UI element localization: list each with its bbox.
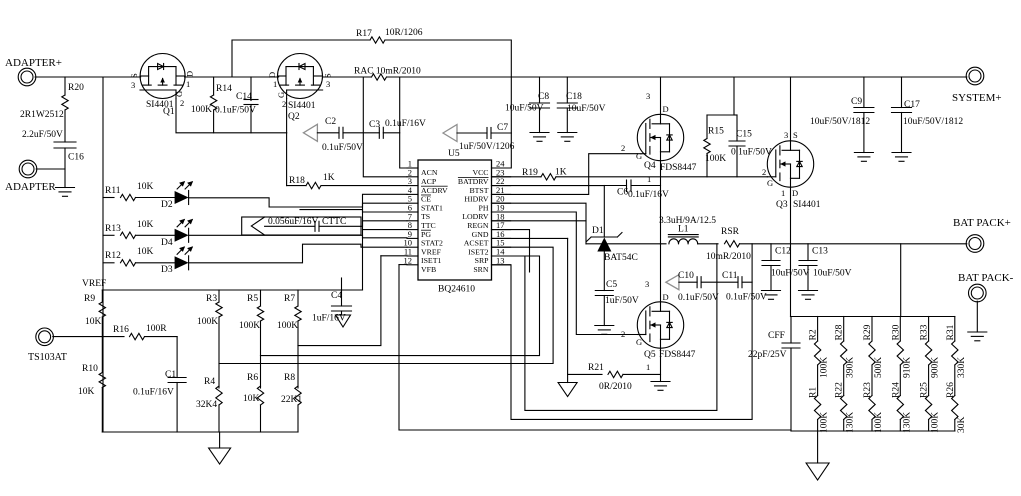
svg-text:R20: R20 xyxy=(68,83,84,93)
svg-text:S: S xyxy=(129,73,139,78)
svg-text:R22: R22 xyxy=(835,382,845,398)
wire R28 to R22 xyxy=(843,365,845,396)
wire ADAPTER- to C16 node xyxy=(36,168,65,170)
wire R8 top xyxy=(297,346,299,388)
diode D1 BAT54C xyxy=(597,238,611,252)
wire R25 bottom xyxy=(928,420,930,432)
wire C8 top xyxy=(539,77,541,103)
svg-text:R3: R3 xyxy=(206,294,217,304)
svg-text:32K4: 32K4 xyxy=(196,400,217,410)
wire pin13 SRN sense xyxy=(492,244,753,420)
wire R24 bottom xyxy=(899,420,901,432)
wire C8 bottom xyxy=(539,108,541,133)
resistor R26 xyxy=(952,396,958,420)
svg-text:ADAPTER-: ADAPTER- xyxy=(5,181,60,193)
resistor R17 xyxy=(370,37,385,43)
wire R6 top xyxy=(260,356,262,388)
pin 13 stub U5 xyxy=(492,264,511,266)
svg-text:1K: 1K xyxy=(555,168,567,178)
svg-text:R8: R8 xyxy=(284,373,295,383)
resistor R18 xyxy=(306,182,321,188)
wire R3/R4 tap to pin15 ISET2 xyxy=(219,247,553,363)
capacitor C17 xyxy=(892,107,912,109)
wire R20 top xyxy=(64,77,66,95)
wire rail Q1.D to Q2.D xyxy=(185,76,279,78)
svg-text:C6: C6 xyxy=(617,188,628,198)
svg-text:BAT54C: BAT54C xyxy=(604,253,638,263)
svg-text:0.1uF/16V: 0.1uF/16V xyxy=(628,190,669,200)
LED D3 xyxy=(175,256,189,269)
svg-text:BATDRV: BATDRV xyxy=(458,177,489,186)
svg-text:100K: 100K xyxy=(705,154,726,164)
resistor R7 xyxy=(295,306,301,321)
svg-text:PH: PH xyxy=(479,203,489,212)
wire C18 top xyxy=(566,77,568,103)
svg-text:C11: C11 xyxy=(722,271,738,281)
svg-text:R6: R6 xyxy=(247,373,258,383)
svg-text:STAT1: STAT1 xyxy=(421,203,443,212)
svg-text:D: D xyxy=(792,188,798,198)
svg-text:100K: 100K xyxy=(931,412,941,433)
svg-text:C9: C9 xyxy=(851,97,862,107)
svg-text:1uF/50V: 1uF/50V xyxy=(605,296,639,306)
pin 17 stub U5 xyxy=(492,229,511,231)
wire ladder bottom rail xyxy=(102,431,298,433)
svg-text:910K: 910K xyxy=(902,357,912,378)
svg-text:SI4401: SI4401 xyxy=(288,101,316,111)
ground triangle under divider xyxy=(806,463,829,480)
resistor R22 xyxy=(841,396,847,420)
wire R21 left xyxy=(568,373,602,375)
wire RSR to BAT PACK+ xyxy=(740,243,967,245)
wire R17 to VCC node xyxy=(385,40,511,77)
wire R29 to R23 xyxy=(871,365,873,396)
wire VCC vertical to pin24 xyxy=(495,77,511,168)
resistor R11 xyxy=(121,194,136,200)
wire R31 to R26 xyxy=(954,365,956,396)
terminal ADAPTER- xyxy=(19,160,37,178)
wire R9 top xyxy=(101,290,103,302)
svg-text:R19: R19 xyxy=(522,168,538,178)
svg-text:SRN: SRN xyxy=(473,265,489,274)
svg-text:130K: 130K xyxy=(902,412,912,433)
svg-text:390K: 390K xyxy=(846,357,856,378)
wire divider top rail xyxy=(791,316,955,318)
wire Q1.D up to R17 xyxy=(232,40,370,77)
svg-text:900K: 900K xyxy=(931,357,941,378)
wire R14 bottom xyxy=(213,110,215,133)
svg-text:2: 2 xyxy=(762,167,766,177)
svg-text:R18: R18 xyxy=(289,176,305,186)
svg-text:100R: 100R xyxy=(146,324,167,334)
wire R33 to R25 xyxy=(928,365,930,396)
wire rail (redundant guard) xyxy=(35,76,103,78)
wire Q2 gate down xyxy=(286,99,288,133)
wire pin20 PH down to rail xyxy=(492,203,587,244)
pin 3 stub U5 xyxy=(407,185,418,187)
svg-text:ISET2: ISET2 xyxy=(468,247,488,256)
capacitor C3 xyxy=(378,127,380,138)
terminal BAT PACK+ xyxy=(966,235,984,253)
svg-text:G: G xyxy=(767,178,773,188)
svg-text:2.2uF/50V: 2.2uF/50V xyxy=(22,130,63,140)
resistor R10 xyxy=(99,373,105,388)
svg-text:CTTC: CTTC xyxy=(322,217,346,227)
wire C1 bottom xyxy=(176,383,178,433)
transistor Q3 SI4401 xyxy=(767,141,813,187)
svg-text:VREF: VREF xyxy=(82,279,106,289)
wire C7 to VCC vertical xyxy=(491,132,511,134)
svg-text:SYSTEM+: SYSTEM+ xyxy=(952,92,1002,104)
svg-text:10K: 10K xyxy=(137,247,154,257)
ground under C16 xyxy=(56,187,75,189)
svg-text:R25: R25 xyxy=(920,382,930,398)
wire R11 to D2 xyxy=(136,197,175,199)
wire C10 to C11 xyxy=(701,281,738,283)
svg-text:Q4: Q4 xyxy=(644,161,656,171)
wire C6 to Q4 source xyxy=(631,185,661,187)
wire RAC left to pin2 ACP xyxy=(363,77,407,177)
svg-text:R29: R29 xyxy=(863,324,873,340)
pin 15 stub U5 xyxy=(492,246,511,248)
wire Q3 drain down to divider rail xyxy=(790,244,792,317)
ground under C12 xyxy=(762,290,781,292)
wire PH node rail xyxy=(586,243,666,245)
wire R8 bottom xyxy=(297,405,299,432)
wire C18 bottom xyxy=(566,108,568,133)
wire pin4 CE down to VREF rail xyxy=(363,194,408,290)
port arrow C10 xyxy=(666,275,679,290)
wire BTST to C6 xyxy=(604,185,626,187)
svg-text:ACN: ACN xyxy=(421,168,438,177)
LED D2 xyxy=(175,191,189,204)
terminal BAT PACK- xyxy=(969,284,987,302)
pin 19 stub U5 xyxy=(492,211,511,213)
ground under C13 xyxy=(799,290,818,292)
wire R33 top xyxy=(928,317,930,342)
wire CFF top xyxy=(790,317,792,344)
svg-text:1K: 1K xyxy=(323,173,335,183)
svg-text:0.1uF/16V: 0.1uF/16V xyxy=(385,119,426,129)
wire pin18 REGN xyxy=(492,220,587,222)
svg-text:SRP: SRP xyxy=(475,256,490,265)
port arrow C2 xyxy=(303,124,317,141)
svg-text:R2: R2 xyxy=(809,329,819,340)
pin 5 stub U5 xyxy=(407,202,418,204)
svg-text:2: 2 xyxy=(621,143,625,153)
svg-text:10K: 10K xyxy=(137,182,154,192)
svg-text:3: 3 xyxy=(646,91,650,101)
svg-text:D1: D1 xyxy=(592,226,604,236)
pin 4 stub U5 xyxy=(407,193,418,195)
svg-text:R23: R23 xyxy=(863,382,873,398)
capacitor C9 xyxy=(854,107,874,109)
inductor L1 xyxy=(669,239,698,244)
svg-text:1uF/50V/1206: 1uF/50V/1206 xyxy=(459,142,515,152)
wire R13 left xyxy=(103,234,114,236)
svg-text:R7: R7 xyxy=(284,294,295,304)
wire R5 top xyxy=(260,290,262,306)
capacitor C12 xyxy=(762,260,780,262)
wire pin14 SRP sense xyxy=(492,244,717,411)
wire Q1 gate to R14/C14 bottom rail xyxy=(176,99,287,133)
svg-text:100K: 100K xyxy=(820,357,830,378)
wire port to C7 xyxy=(457,132,487,134)
svg-text:VFB: VFB xyxy=(421,265,436,274)
svg-text:RAC 10mR/2010: RAC 10mR/2010 xyxy=(354,67,421,77)
svg-text:30K: 30K xyxy=(957,417,967,434)
svg-text:CE: CE xyxy=(421,195,431,204)
wire pin12 VFB left xyxy=(399,264,407,266)
svg-text:10K: 10K xyxy=(85,317,102,327)
wire CTTC to pin7 TTC xyxy=(319,221,407,227)
svg-text:C3: C3 xyxy=(369,120,380,130)
svg-text:STAT2: STAT2 xyxy=(421,239,443,248)
wire R9 bottom xyxy=(101,317,103,337)
svg-text:R14: R14 xyxy=(216,84,232,94)
svg-text:0.1uF/16V: 0.1uF/16V xyxy=(133,388,174,398)
svg-text:1: 1 xyxy=(646,362,650,372)
svg-text:C14: C14 xyxy=(236,92,252,102)
wire R26 bottom xyxy=(954,420,956,432)
svg-text:R31: R31 xyxy=(946,324,956,340)
pin 24 stub U5 xyxy=(492,167,511,169)
svg-text:10uF/50V: 10uF/50V xyxy=(505,104,544,114)
svg-text:ACP: ACP xyxy=(421,177,437,186)
capacitor C2 xyxy=(338,127,340,138)
svg-text:FDS8447: FDS8447 xyxy=(660,163,697,173)
svg-text:ISET1: ISET1 xyxy=(421,256,441,265)
wire R31 top xyxy=(954,317,956,342)
resistor R6 xyxy=(257,386,263,405)
svg-text:D4: D4 xyxy=(161,238,173,248)
svg-text:100K: 100K xyxy=(277,321,298,331)
svg-text:REGN: REGN xyxy=(467,221,489,230)
wire Q4 drain from rail xyxy=(660,77,662,114)
svg-text:PG: PG xyxy=(421,230,431,239)
svg-text:R15: R15 xyxy=(708,127,724,137)
svg-text:10K: 10K xyxy=(137,220,154,230)
svg-text:330K: 330K xyxy=(957,357,967,378)
wire ground stem ladder xyxy=(219,432,221,448)
svg-text:VREF: VREF xyxy=(421,247,442,256)
wire R10 bottom xyxy=(101,388,103,433)
resistor R15 xyxy=(704,139,710,154)
wire rail step to R15/C15 xyxy=(707,77,734,115)
svg-text:SI4401: SI4401 xyxy=(793,200,821,210)
wire rail Q2.S to RAC xyxy=(323,76,372,78)
wire D1 anode down to C5 xyxy=(603,252,605,291)
wire PH down to Q5 drain xyxy=(660,244,662,302)
svg-text:0.1uF/50V: 0.1uF/50V xyxy=(678,293,719,303)
resistor R33 xyxy=(925,341,931,365)
wire ACSET vertical to R21 xyxy=(567,238,569,374)
resistor R9 xyxy=(99,302,105,317)
wire R16 left xyxy=(102,336,124,338)
wire C14 top xyxy=(250,77,252,101)
wire R6 bottom xyxy=(260,405,262,432)
svg-text:R9: R9 xyxy=(84,294,95,304)
ground under C9 xyxy=(854,152,873,154)
svg-text:0.1uF/50V: 0.1uF/50V xyxy=(322,143,363,153)
svg-text:VCC: VCC xyxy=(472,168,488,177)
svg-text:Q3: Q3 xyxy=(776,200,788,210)
resistor R4 xyxy=(216,386,222,405)
svg-text:D3: D3 xyxy=(161,265,173,275)
wire step to C15 xyxy=(734,114,737,116)
resistor R3 xyxy=(216,302,222,317)
svg-text:FDS8447: FDS8447 xyxy=(659,350,696,360)
pin 20 stub U5 xyxy=(492,202,511,204)
wire pin16 ACSET right xyxy=(492,237,568,239)
wire R7 top xyxy=(297,290,299,306)
svg-text:LODRV: LODRV xyxy=(462,212,489,221)
capacitor CTTC 0.056uF/16V xyxy=(314,221,316,231)
wire R30 top xyxy=(899,317,901,342)
wire R15 top xyxy=(706,115,708,139)
svg-text:U5: U5 xyxy=(448,149,460,159)
resistor R30 xyxy=(897,341,903,365)
resistor R21 xyxy=(608,371,623,377)
resistor R20 xyxy=(62,95,68,110)
resistor R2 xyxy=(814,341,820,365)
wire pin17 GND xyxy=(492,230,530,272)
ground under C17 xyxy=(892,152,911,154)
wire Q3 source from rail xyxy=(790,77,792,141)
wire R5 to tap xyxy=(260,321,262,356)
svg-text:CFF: CFF xyxy=(768,331,785,341)
svg-text:R4: R4 xyxy=(204,377,215,387)
port arrow C7 xyxy=(443,125,457,142)
resistor R19 xyxy=(541,174,556,180)
wire R16 to C1 xyxy=(145,336,178,338)
resistor R8 xyxy=(295,386,301,405)
wire Q2 gate to R18 xyxy=(286,133,288,186)
capacitor CFF xyxy=(782,342,800,344)
svg-text:R10: R10 xyxy=(82,364,98,374)
wire TS103AT to R9/R10 xyxy=(53,336,103,338)
svg-text:22pF/25V: 22pF/25V xyxy=(748,350,787,360)
svg-text:BTST: BTST xyxy=(469,186,488,195)
wire R29 top xyxy=(871,317,873,342)
wire C13 top xyxy=(807,244,809,261)
wire port to C2 xyxy=(317,132,339,134)
svg-text:130K: 130K xyxy=(846,412,856,433)
svg-text:100K: 100K xyxy=(197,317,218,327)
ground under C5 xyxy=(595,325,614,327)
svg-text:G: G xyxy=(276,92,286,98)
svg-text:100K: 100K xyxy=(239,321,260,331)
wire R7 to tap xyxy=(297,321,299,346)
wire C12 bottom xyxy=(770,266,772,291)
svg-text:C10: C10 xyxy=(678,271,694,281)
wire rail RAC to SYSTEM+ xyxy=(387,76,967,78)
wire R11 left xyxy=(103,197,114,199)
svg-text:0.1uF/50V: 0.1uF/50V xyxy=(726,293,767,303)
svg-text:C1: C1 xyxy=(165,370,176,380)
wire D3 to pin10 xyxy=(189,244,407,263)
capacitor C15 xyxy=(729,140,745,142)
svg-text:R1: R1 xyxy=(809,387,819,398)
svg-text:10R/1206: 10R/1206 xyxy=(385,28,423,38)
wire C9 bottom xyxy=(863,113,865,153)
wire C3 to ACN node xyxy=(383,132,399,134)
pin 8 stub U5 xyxy=(407,229,418,231)
svg-text:10uF/50V/1812: 10uF/50V/1812 xyxy=(810,117,870,127)
wire ground stem R21 xyxy=(567,374,569,382)
svg-text:C15: C15 xyxy=(736,130,752,140)
wire port to C10 xyxy=(679,281,697,283)
svg-text:10uF/50V: 10uF/50V xyxy=(813,269,852,279)
wire R13 to D4 xyxy=(136,234,175,236)
svg-text:1: 1 xyxy=(186,79,190,89)
svg-text:L1: L1 xyxy=(678,225,689,235)
pin 9 stub U5 xyxy=(407,237,418,239)
svg-text:HIDRV: HIDRV xyxy=(464,195,488,204)
svg-text:C12: C12 xyxy=(775,247,791,257)
svg-text:D: D xyxy=(663,104,669,114)
svg-text:ADAPTER+: ADAPTER+ xyxy=(5,57,62,69)
svg-text:3: 3 xyxy=(645,279,649,289)
svg-text:TS103AT: TS103AT xyxy=(28,352,67,363)
svg-text:1: 1 xyxy=(647,174,651,184)
svg-text:100K: 100K xyxy=(820,412,830,433)
capacitor C13 xyxy=(799,260,817,262)
wire C4 top xyxy=(341,290,343,306)
svg-text:C17: C17 xyxy=(904,100,920,110)
wire Q2 gate node to R18 xyxy=(287,185,306,187)
ground triangle under C4 xyxy=(336,315,351,327)
svg-text:2R1W2512: 2R1W2512 xyxy=(20,110,64,120)
ground under C18 xyxy=(558,132,577,134)
wire C15 bottom xyxy=(736,146,738,177)
wire pin11 ISET1 left xyxy=(381,255,407,257)
wire Q4 source down to PH node xyxy=(660,161,662,245)
svg-text:R33: R33 xyxy=(920,324,930,340)
pin 2 stub U5 xyxy=(407,176,418,178)
pin 10 stub U5 xyxy=(407,246,418,248)
pin 16 stub U5 xyxy=(492,237,511,239)
resistor R24 xyxy=(897,396,903,420)
pin 14 stub U5 xyxy=(492,255,511,257)
svg-text:S: S xyxy=(323,73,333,78)
svg-text:3: 3 xyxy=(784,130,788,140)
svg-text:500K: 500K xyxy=(874,357,884,378)
wire ground stem divider xyxy=(817,431,819,463)
svg-text:Q2: Q2 xyxy=(288,112,300,122)
svg-text:10uF/50V/1812: 10uF/50V/1812 xyxy=(903,117,963,127)
wire Q5 gate to pin19 LODRV xyxy=(492,212,638,335)
svg-text:D: D xyxy=(185,71,195,77)
op-amp U5 BQ24610 body xyxy=(418,160,492,280)
wire port tail to CTTC cap xyxy=(265,225,315,227)
resistor R16 xyxy=(130,333,145,339)
svg-text:R28: R28 xyxy=(835,324,845,340)
svg-text:3.3uH/9A/12.5: 3.3uH/9A/12.5 xyxy=(659,216,716,226)
resistor R5 xyxy=(257,306,263,321)
wire C17 top xyxy=(901,77,903,108)
wire left bus vertical xyxy=(102,77,104,432)
wire L1 to RSR xyxy=(698,243,718,245)
wire C4 bottom xyxy=(341,311,343,315)
wire pin8 PG from CE vertical xyxy=(363,229,408,231)
resistor R28 xyxy=(841,341,847,365)
svg-text:ACDRV: ACDRV xyxy=(421,186,448,195)
transistor Q2 SI4401 xyxy=(278,54,323,99)
wire C15 top xyxy=(736,115,738,141)
svg-text:R13: R13 xyxy=(105,224,121,234)
resistor R29 xyxy=(869,341,875,365)
